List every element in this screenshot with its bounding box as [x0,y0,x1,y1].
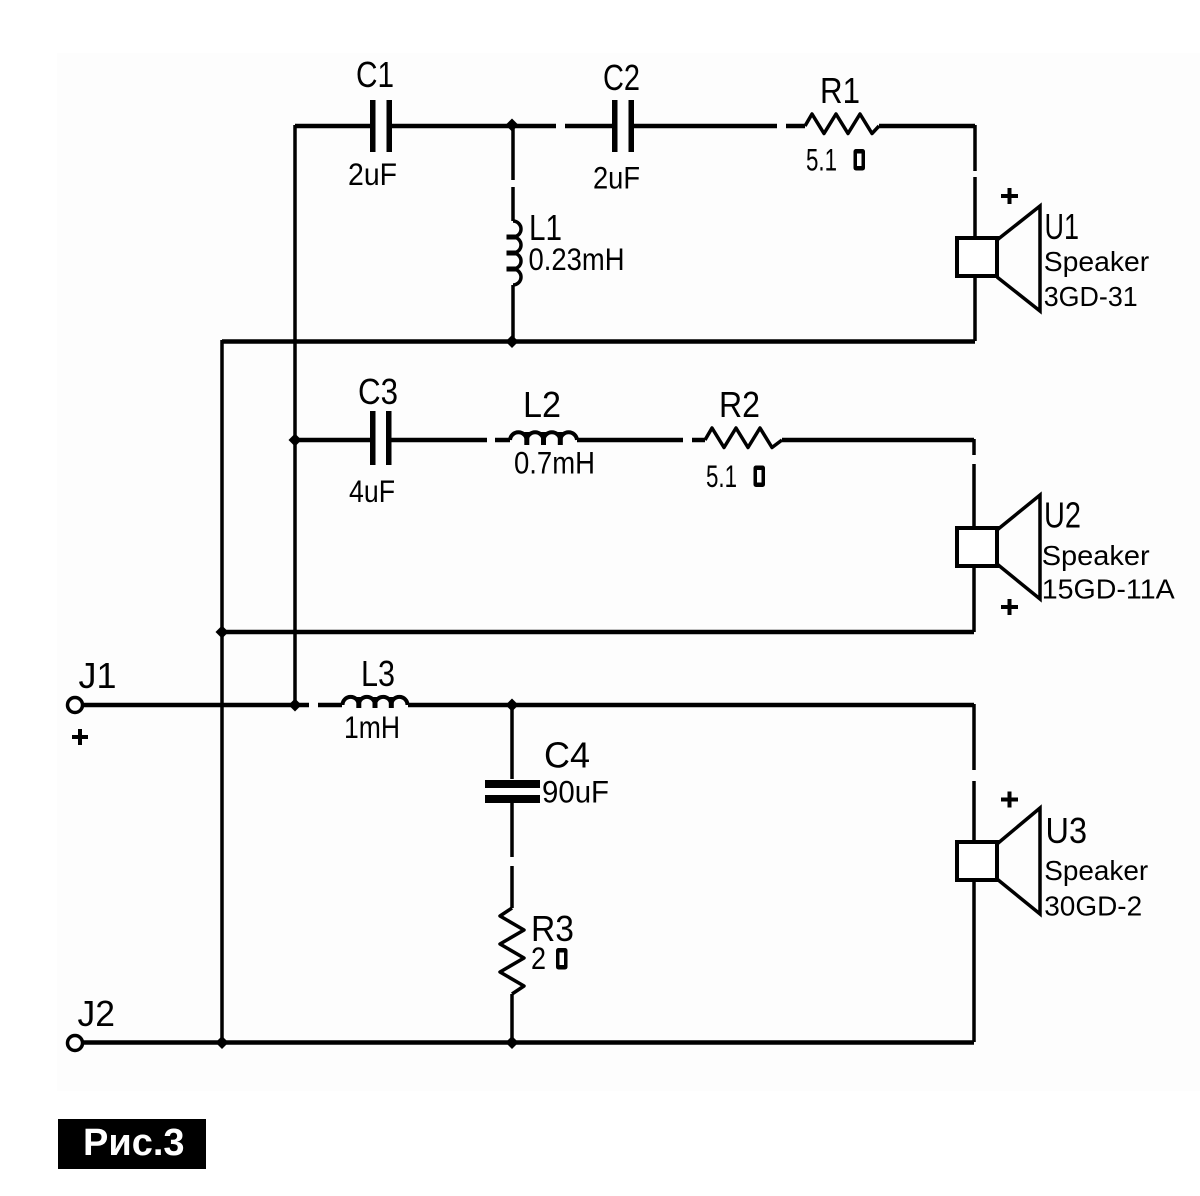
wire L1 branch top lead [511,126,515,221]
wire top row left segment [295,124,370,129]
wire row2 bottom rail [222,630,974,635]
wire row2 C3 to L2 [390,438,510,443]
wire row1 bottom rail [222,339,975,344]
wire top row R1 to right corner [879,124,975,129]
inductor L3 [343,697,408,708]
svg-text:U2: U2 [1044,495,1081,535]
wire right vertical row1 [973,125,977,341]
wire L1 branch bottom lead [511,285,515,342]
junction node L1 bottom [505,335,518,348]
svg-text:R2: R2 [719,385,760,425]
J1 plus polarity mark [72,729,88,745]
svg-text:4uF: 4uF [349,474,395,509]
wire left positive bus x=295 [293,125,297,705]
U1 plus polarity mark [1001,188,1018,204]
capacitor C1 [370,100,392,152]
wire row2 L2 to R2 [577,438,705,443]
junction node L1 top [505,118,518,131]
svg-text:5.1: 5.1 [706,459,737,494]
capacitor C2 [612,100,634,152]
resistor R2 [705,428,782,448]
svg-text:2uF: 2uF [348,157,397,192]
R1 ohm symbol [854,149,866,171]
svg-text:15GD-11A: 15GD-11A [1042,574,1175,605]
wire C4 to R3 lead [510,803,514,908]
svg-text:Speaker: Speaker [1042,540,1150,571]
svg-text:1mH: 1mH [344,710,400,745]
svg-text:L3: L3 [361,654,395,694]
svg-text:2uF: 2uF [593,161,640,196]
svg-text:C1: C1 [356,55,394,95]
speaker U3 [957,808,1040,914]
svg-text:Рис.3: Рис.3 [83,1122,185,1164]
junction node row2 bottom rail [215,625,228,638]
inductor L1 [507,221,522,285]
svg-text:Speaker: Speaker [1044,246,1150,277]
wire top row C1 to C2 [392,124,612,129]
svg-text:2: 2 [531,941,546,976]
junction node R3 bottom [505,1036,518,1049]
resistor R3 [500,908,524,994]
svg-text:3GD-31: 3GD-31 [1044,281,1138,312]
svg-text:0.23mH: 0.23mH [529,242,625,277]
svg-text:U1: U1 [1045,207,1080,247]
junction node J1 to L3 [288,698,301,711]
svg-text:30GD-2: 30GD-2 [1044,891,1142,922]
inductor L2 [510,432,577,445]
U3 plus polarity mark [1001,792,1018,808]
wire J1 row L3 to right corner [408,703,974,708]
svg-text:J2: J2 [78,994,116,1034]
connector J1 terminal [68,698,83,713]
speaker U1 [957,206,1040,311]
wire C4 branch upper lead [510,705,514,779]
R3 ohm symbol [556,948,568,970]
svg-text:U3: U3 [1046,811,1088,851]
junction node C4 top [505,698,518,711]
R2 ohm symbol [754,466,766,488]
wire row2 left segment [295,438,370,443]
svg-text:90uF: 90uF [542,775,609,810]
speaker U2 [957,495,1040,599]
wire J1 row left [83,703,342,708]
svg-text:0.7mH: 0.7mH [514,446,595,481]
svg-text:C2: C2 [603,58,640,98]
svg-text:5.1: 5.1 [806,143,837,178]
connector J2 terminal [68,1036,83,1051]
junction node C3 input [288,433,301,446]
wire negative bus x=222 [220,340,224,1042]
svg-text:L2: L2 [523,385,561,425]
U2 plus polarity mark [1001,599,1018,615]
svg-text:C3: C3 [358,372,398,412]
wire R3 bottom lead [510,994,514,1042]
figure caption box Рис.3 [58,1119,206,1169]
wire J2 bottom rail [83,1040,974,1045]
wire right vertical row2 [972,439,976,632]
capacitor C4 [485,780,540,803]
junction node J2 rail bus [215,1036,228,1049]
svg-text:J1: J1 [79,656,117,696]
svg-text:R1: R1 [820,71,860,111]
resistor R1 [805,114,879,134]
wire top row C2 to R1 [634,124,805,129]
wire row2 R2 to right corner [782,438,974,443]
capacitor C3 [370,411,392,465]
svg-text:Speaker: Speaker [1044,855,1148,886]
wire right vertical row3 [972,704,976,1042]
svg-text:C4: C4 [544,735,590,775]
